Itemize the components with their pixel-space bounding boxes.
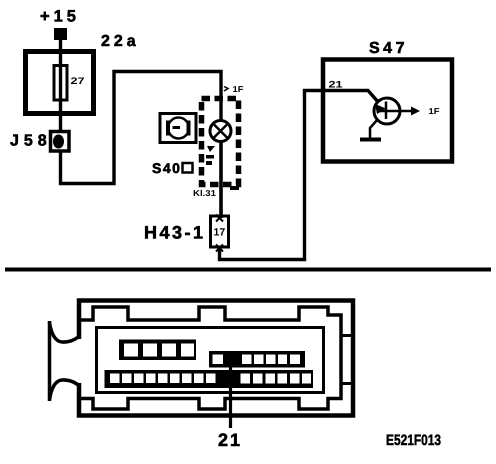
svg-text:E521F013: E521F013 xyxy=(386,432,441,449)
svg-text:27: 27 xyxy=(71,76,85,87)
svg-text:22a: 22a xyxy=(101,33,140,50)
svg-text:S47: S47 xyxy=(369,40,408,57)
svg-text:H43-1: H43-1 xyxy=(144,223,206,243)
svg-text:21: 21 xyxy=(218,430,242,450)
svg-text:S40: S40 xyxy=(152,160,181,176)
svg-text:1F: 1F xyxy=(233,84,244,94)
svg-text:Kl.31: Kl.31 xyxy=(193,188,216,198)
svg-text:J58: J58 xyxy=(10,133,52,150)
svg-text:+15: +15 xyxy=(40,8,80,26)
svg-text:21: 21 xyxy=(329,80,344,91)
svg-text:1F: 1F xyxy=(429,106,440,116)
svg-text:17: 17 xyxy=(214,227,226,239)
